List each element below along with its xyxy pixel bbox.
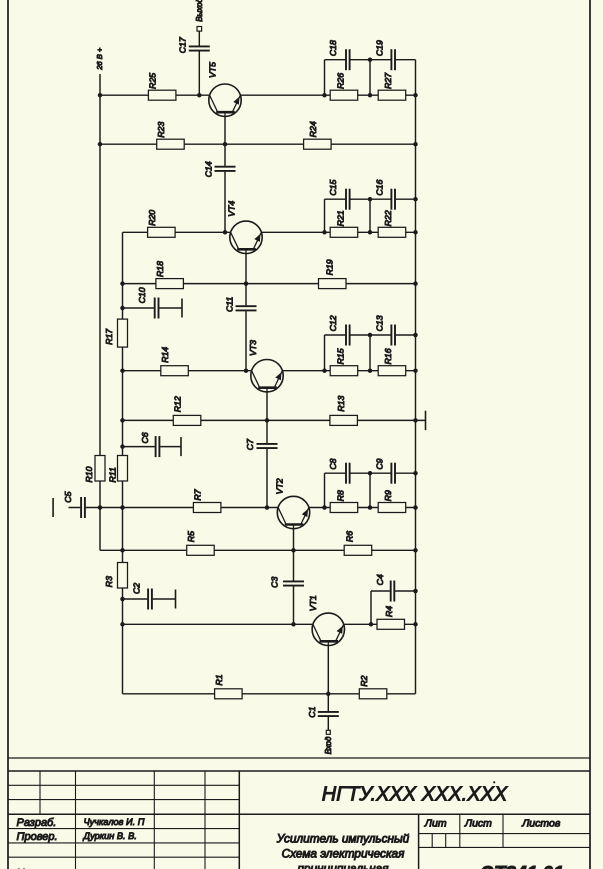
- svg-text:R12: R12: [173, 396, 183, 412]
- svg-text:R11: R11: [108, 467, 118, 482]
- svg-text:Схема электрическая: Схема электрическая: [282, 847, 405, 861]
- svg-text:R3: R3: [104, 576, 114, 587]
- svg-text:Дуркин В. В.: Дуркин В. В.: [83, 831, 137, 841]
- svg-text:C10: C10: [137, 287, 147, 303]
- svg-text:R14: R14: [160, 347, 170, 363]
- svg-text:VT5: VT5: [208, 62, 218, 78]
- svg-text:R10: R10: [84, 466, 94, 482]
- svg-text:C16: C16: [375, 179, 385, 195]
- svg-text:R5: R5: [186, 531, 196, 542]
- svg-text:C7: C7: [245, 438, 255, 450]
- svg-text:R1: R1: [214, 674, 224, 685]
- svg-text:НГТУ.ХХХ ХХХ.ХХХ: НГТУ.ХХХ ХХХ.ХХХ: [322, 784, 508, 806]
- svg-text:Провер.: Провер.: [17, 831, 58, 843]
- svg-text:R21: R21: [336, 210, 346, 226]
- svg-text:C2: C2: [132, 583, 142, 594]
- svg-text:Усилитель импульсный: Усилитель импульсный: [276, 831, 410, 845]
- svg-text:R2: R2: [359, 675, 369, 686]
- svg-text:C9: C9: [375, 458, 385, 469]
- svg-text:C8: C8: [328, 458, 338, 469]
- svg-text:R24: R24: [308, 121, 318, 137]
- svg-text:C12: C12: [328, 315, 338, 331]
- svg-text:R15: R15: [336, 348, 346, 364]
- svg-text:C4: C4: [375, 574, 385, 585]
- svg-text:C1: C1: [307, 706, 317, 717]
- svg-text:R17: R17: [104, 328, 114, 345]
- svg-text:C13: C13: [375, 315, 385, 331]
- svg-text:C15: C15: [328, 179, 338, 195]
- svg-text:R7: R7: [193, 488, 203, 500]
- svg-text:C19: C19: [375, 40, 385, 56]
- svg-text:R18: R18: [155, 261, 165, 277]
- svg-text:принципиальная: принципиальная: [297, 862, 389, 869]
- svg-text:VT2: VT2: [275, 478, 285, 494]
- svg-text:R4: R4: [384, 606, 394, 617]
- svg-text:R16: R16: [383, 348, 393, 364]
- svg-text:26 В +: 26 В +: [95, 47, 104, 71]
- svg-text:Вход: Вход: [324, 736, 333, 754]
- svg-text:R9: R9: [383, 490, 393, 501]
- svg-text:Лит: Лит: [424, 817, 447, 829]
- svg-text:Листов: Листов: [521, 817, 561, 829]
- svg-text:Чучкалов И. П: Чучкалов И. П: [84, 817, 145, 827]
- svg-text:R20: R20: [147, 210, 157, 226]
- svg-text:Лист: Лист: [464, 817, 492, 829]
- svg-text:C6: C6: [140, 432, 150, 443]
- svg-text:R23: R23: [156, 121, 166, 137]
- svg-text:ЭТ341 01: ЭТ341 01: [480, 864, 563, 869]
- svg-text:R8: R8: [336, 490, 346, 501]
- svg-text:VT3: VT3: [248, 340, 258, 356]
- svg-text:Разраб.: Разраб.: [17, 817, 57, 829]
- svg-text:R19: R19: [325, 259, 335, 275]
- svg-text:VT1: VT1: [308, 595, 318, 611]
- svg-text:R27: R27: [383, 72, 393, 89]
- svg-text:R22: R22: [383, 210, 393, 226]
- svg-text:C17: C17: [177, 36, 187, 53]
- svg-text:R25: R25: [148, 73, 158, 89]
- svg-text:Выход: Выход: [195, 0, 204, 22]
- svg-text:R6: R6: [345, 531, 355, 542]
- svg-text:VT4: VT4: [226, 201, 236, 217]
- svg-text:C11: C11: [225, 297, 235, 312]
- svg-text:C3: C3: [270, 577, 280, 588]
- svg-text:R13: R13: [336, 395, 346, 411]
- svg-text:C18: C18: [328, 40, 338, 56]
- svg-text:C5: C5: [63, 491, 73, 502]
- svg-text:R26: R26: [336, 73, 346, 89]
- svg-text:C14: C14: [204, 161, 214, 177]
